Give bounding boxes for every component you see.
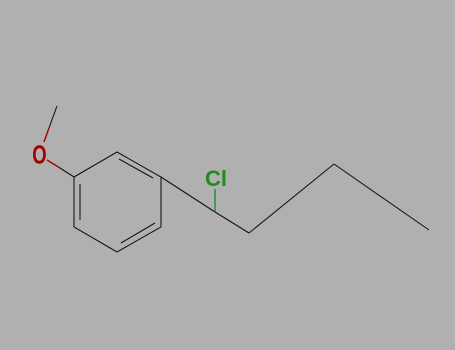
bond chain apex to end (long down-right) [334, 164, 429, 230]
bond CH3-O (dark red part near O) [44, 128, 49, 142]
aromatic double bond inner line BL-TL (left edge) [79, 184, 81, 220]
bond O-C1 (dark red stub near O) [47, 160, 60, 168]
bond chain valley to apex (long up-right) [249, 164, 334, 233]
svg-text:O: O [32, 141, 46, 170]
svg-text:Cl: Cl [205, 166, 227, 191]
bond CHCl - CH2 (down-right to chain valley) [215, 212, 249, 233]
aromatic double bond inner line BR-B (bottom right edge) [121, 223, 155, 243]
bond ring TR - CHCl carbon [161, 177, 215, 212]
benzene ring outline (hexagon TL-T-TR-BR-B-BL) [74, 152, 161, 252]
bond C-Cl (dark green stub up to Cl label) [214, 189, 216, 212]
aromatic double bond inner line T-TR [119, 159, 153, 178]
bond CH3-O (methyl stem, black upper part) [49, 106, 57, 128]
bond O-C1 (black part to ring TL vertex) [60, 168, 74, 177]
